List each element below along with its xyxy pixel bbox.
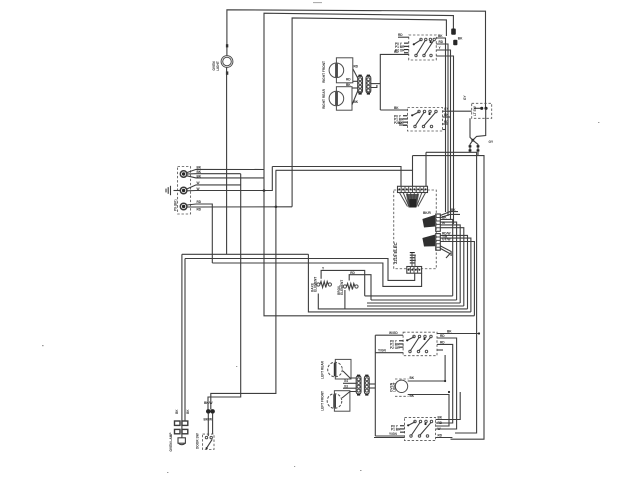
svg-text:RD: RD: [438, 421, 443, 425]
ground symbol: [166, 186, 180, 195]
wire burner loop bottom BK: [380, 106, 407, 110]
wire J2 out f: [440, 228, 464, 306]
wire long bus right b: [413, 156, 485, 440]
wire T3 fan a: [187, 200, 213, 211]
wire board feed c: [425, 152, 427, 186]
svg-text:W: W: [438, 427, 441, 431]
wire mesh H1: [365, 295, 453, 297]
burner RR loop box: [336, 87, 352, 111]
board right connector J3: [436, 234, 441, 251]
svg-text:W: W: [442, 221, 445, 225]
wire mesh H6: [308, 254, 471, 312]
wire bake top lead: [321, 267, 365, 296]
wire T3 fan b: [187, 207, 292, 212]
board J2 label blob: [422, 211, 435, 228]
wire J3 out c: [440, 238, 474, 316]
label board: [393, 242, 398, 264]
oven lamp bulb E1: [169, 432, 185, 452]
wire WGD to S3: [375, 331, 403, 335]
svg-text:BK: BK: [346, 83, 351, 87]
wire RR lower to CN1: [352, 91, 359, 105]
wire LF to CN2 b: [342, 392, 356, 399]
svg-text:RD: RD: [438, 434, 443, 438]
svg-text:RIGHT REAR: RIGHT REAR: [322, 88, 326, 109]
label left front: [321, 391, 325, 411]
wire T2 fan b: [187, 167, 272, 191]
wire YGN to S3: [375, 349, 403, 353]
svg-text:RD: RD: [354, 65, 359, 69]
svg-text:Y/GN: Y/GN: [389, 432, 397, 436]
wire light top right: [408, 355, 445, 381]
svg-text:BK: BK: [442, 216, 447, 220]
junction dot node J1: [263, 189, 266, 192]
svg-text:BK: BK: [175, 409, 179, 414]
wire LR to CN2 a: [343, 371, 356, 383]
wire bus V264: [264, 170, 474, 316]
wire door chain b: [212, 414, 214, 435]
svg-text:BK/R: BK/R: [423, 211, 431, 215]
wire lamp B1 bottom lead: [226, 68, 228, 255]
wire RF lower to CN1: [346, 78, 358, 82]
svg-text:W/GD: W/GD: [389, 331, 398, 335]
wire S2 right d: [443, 129, 446, 131]
wire bus V375: [374, 335, 376, 436]
wire burner loop top RD: [380, 50, 408, 110]
wire pair to oven lamp upper: [182, 253, 309, 255]
wire RF to CN1: [353, 65, 359, 79]
connector CN2 pill a: [356, 375, 361, 396]
wire YGN to S4: [375, 432, 404, 436]
wire mesh H2: [371, 299, 457, 301]
svg-text:X4: X4: [344, 379, 348, 383]
svg-text:BK: BK: [458, 37, 463, 41]
svg-text:P1 BR: P1 BR: [391, 428, 401, 432]
wire T1 fan c: [187, 175, 264, 179]
label terminal block: [174, 199, 178, 211]
switch S4 left front surface: [405, 418, 436, 441]
wire mesh H5 bake return: [318, 294, 467, 309]
wire LR to CN2 b: [343, 382, 356, 384]
svg-text:LEFT FRONT: LEFT FRONT: [321, 391, 325, 411]
svg-text:BK: BK: [197, 166, 202, 170]
label right front: [322, 61, 326, 83]
bake element R1: [310, 277, 331, 292]
broil element R2: [337, 280, 358, 295]
svg-text:RD: RD: [440, 334, 445, 338]
switch S2 infinite right front: [408, 108, 443, 132]
svg-text:P2 OR: P2 OR: [390, 346, 400, 350]
board J3 label blob: [422, 235, 435, 247]
svg-text:BK: BK: [197, 170, 202, 174]
wire bus V240 to door switch: [208, 174, 241, 410]
wire RR to CN1: [346, 83, 358, 88]
wire LF to CN2 a: [343, 384, 356, 388]
svg-text:LIGHT: LIGHT: [393, 382, 397, 392]
svg-text:BK: BK: [186, 409, 190, 414]
wire J3 out b: [440, 234, 471, 312]
svg-text:DOOR SW: DOOR SW: [196, 433, 200, 449]
svg-text:BK: BK: [444, 113, 449, 117]
svg-text:BK: BK: [398, 121, 403, 125]
wire S3 right b: [436, 334, 457, 429]
svg-text:P9 (BK): P9 (BK): [174, 199, 178, 211]
svg-text:3215 ELEC: 3215 ELEC: [393, 242, 398, 264]
wire lamp chain left: [181, 254, 183, 437]
svg-text:ELEMENT: ELEMENT: [314, 277, 318, 292]
svg-text:BK: BK: [451, 208, 456, 212]
connector bars K1: [175, 421, 188, 425]
wire L3 top loop: [292, 18, 446, 207]
wire light switch bottom lead: [473, 108, 486, 140]
board bottom connector J4: [407, 267, 422, 274]
burner LR circle: [328, 362, 343, 377]
svg-text:LIGHT: LIGHT: [216, 61, 220, 71]
wire CN2 right a: [369, 383, 375, 385]
wire S3 right c: [436, 341, 453, 423]
wire T2 fan a: [187, 181, 241, 189]
wire J2 out e: [440, 221, 460, 303]
wire CN1 to bus b: [371, 85, 377, 88]
wire S3 right d: [437, 349, 443, 351]
svg-text:OVEN LAMP: OVEN LAMP: [169, 432, 173, 452]
switch S1 infinite right rear: [409, 35, 437, 60]
label twist: [489, 140, 494, 144]
svg-text:BK/W: BK/W: [204, 401, 213, 405]
svg-text:ELEMENT: ELEMENT: [340, 280, 344, 295]
wire S2 right b: [443, 113, 451, 117]
wire pair to oven lamp lower: [185, 259, 415, 281]
svg-text:W: W: [197, 187, 200, 191]
svg-text:BK/W: BK/W: [204, 418, 213, 422]
wire CN2 right b: [369, 387, 375, 389]
wire J3 out a: [440, 232, 467, 309]
svg-text:RD: RD: [197, 208, 202, 212]
wire L1 top loop: [227, 10, 486, 108]
label stack S1: [395, 42, 409, 53]
svg-text:LT SW: LT SW: [473, 106, 477, 116]
svg-text:RD: RD: [350, 271, 355, 275]
svg-text:P2 OR: P2 OR: [395, 48, 405, 52]
label stack S3: [390, 340, 404, 350]
door switch S5: [196, 433, 215, 449]
svg-text:BK: BK: [438, 416, 443, 420]
wire S4 right labels: [438, 416, 443, 438]
wire net to board top b: [276, 170, 413, 186]
wire S2 left stub: [398, 121, 408, 125]
wire light bottom right: [408, 394, 449, 426]
door switch chain blobs: [204, 401, 215, 414]
label left rear: [321, 360, 325, 379]
svg-text:LEFT REAR: LEFT REAR: [321, 360, 325, 379]
board fan harness: [399, 193, 425, 208]
svg-text:BK: BK: [447, 330, 452, 334]
wire S2 right c: [443, 120, 450, 124]
wire S1 right b: [436, 40, 448, 216]
wire J2 out d: [440, 222, 456, 300]
svg-text:RD: RD: [197, 200, 202, 204]
wire lamp chain right: [184, 259, 186, 422]
svg-text:RIGHT FRONT: RIGHT FRONT: [322, 61, 326, 83]
svg-text:BK: BK: [410, 394, 415, 398]
wire J2 out c: [440, 216, 452, 296]
label right rear: [322, 88, 326, 109]
junction dots bottom: [444, 332, 480, 393]
wire J3 fan down b: [440, 248, 450, 258]
wire bus V276 to door switch: [211, 172, 276, 410]
board bottom label stack: [410, 252, 416, 267]
wire S4 right a: [436, 392, 461, 420]
wire broil top lead: [349, 271, 371, 300]
terminal blob P2: [453, 37, 463, 46]
oven light switch S6: [463, 95, 492, 119]
terminal T2: [180, 187, 187, 194]
svg-text:RD: RD: [440, 341, 445, 345]
wire door chain a: [207, 414, 209, 436]
svg-text:BK: BK: [197, 175, 202, 179]
svg-text:RD: RD: [439, 40, 444, 44]
wire light switch left lead: [470, 118, 473, 140]
svg-text:GY/W: GY/W: [442, 238, 451, 242]
board right connector J2: [436, 214, 441, 231]
svg-text:RD: RD: [346, 78, 351, 82]
burner LR loop box: [335, 359, 351, 379]
burner RR circle: [329, 91, 344, 106]
terminal blob P1: [451, 29, 456, 35]
svg-text:Y/GN: Y/GN: [378, 349, 386, 353]
svg-text:BK: BK: [354, 100, 359, 104]
control board A1 box: [394, 190, 437, 269]
wire mesh H3: [367, 302, 460, 304]
board top connector J8: [398, 186, 428, 192]
burner LF loop box: [334, 391, 350, 412]
burner RF circle: [329, 63, 344, 78]
junction twist X1: [469, 139, 480, 156]
svg-text:BK: BK: [438, 34, 443, 38]
terminal T1: [180, 171, 187, 178]
wire third return: [212, 263, 421, 286]
svg-text:X3: X3: [344, 384, 348, 388]
wire long bus right a: [426, 152, 477, 433]
label lamp chain: [175, 409, 190, 414]
connector CN1 pill b: [366, 75, 371, 95]
label door chain: [204, 418, 213, 422]
label stack S4: [391, 425, 405, 433]
svg-text:W: W: [197, 181, 200, 185]
wire mesh H4: [367, 305, 464, 307]
wire S2 to light switch: [443, 107, 472, 111]
svg-text:BK: BK: [410, 376, 415, 380]
svg-text:RD: RD: [444, 120, 449, 124]
oven light E2: [389, 379, 408, 396]
burner LF circle: [327, 394, 342, 409]
label stack S2: [394, 115, 408, 126]
wire S3 right a: [437, 330, 479, 334]
svg-text:BK: BK: [394, 106, 399, 110]
connector CN2 pill b: [364, 375, 369, 396]
wire J3 fan down a: [440, 246, 451, 256]
wire L2 top loop: [264, 13, 453, 169]
burner RF loop box: [336, 58, 352, 83]
wire net to board top a: [272, 167, 401, 187]
wire J2 fan up a: [440, 208, 458, 216]
wire J2 fan up b: [440, 214, 460, 217]
wire T1 fan a: [187, 166, 264, 173]
connector CN1 pill a: [358, 75, 363, 95]
wire CN1 to bus: [371, 83, 381, 85]
lamp B1 oven light (top): [212, 44, 233, 75]
wire S1 right c: [436, 46, 450, 220]
wire S4 bottom: [374, 437, 452, 439]
svg-text:RD: RD: [398, 33, 403, 37]
wire S1 left stub: [398, 33, 409, 37]
terminal block TB dashed box: [178, 167, 191, 215]
switch S3 left rear surface: [403, 332, 437, 356]
wire T1 fan b: [187, 170, 241, 174]
connector bars K2: [175, 429, 188, 433]
wire S1 right a: [436, 34, 445, 212]
wire S1 right d: [436, 56, 453, 224]
junction dot node J2: [275, 206, 278, 209]
wire broil bottom lead: [344, 290, 346, 309]
wire bus V212: [211, 211, 213, 263]
terminal T3: [180, 203, 187, 210]
